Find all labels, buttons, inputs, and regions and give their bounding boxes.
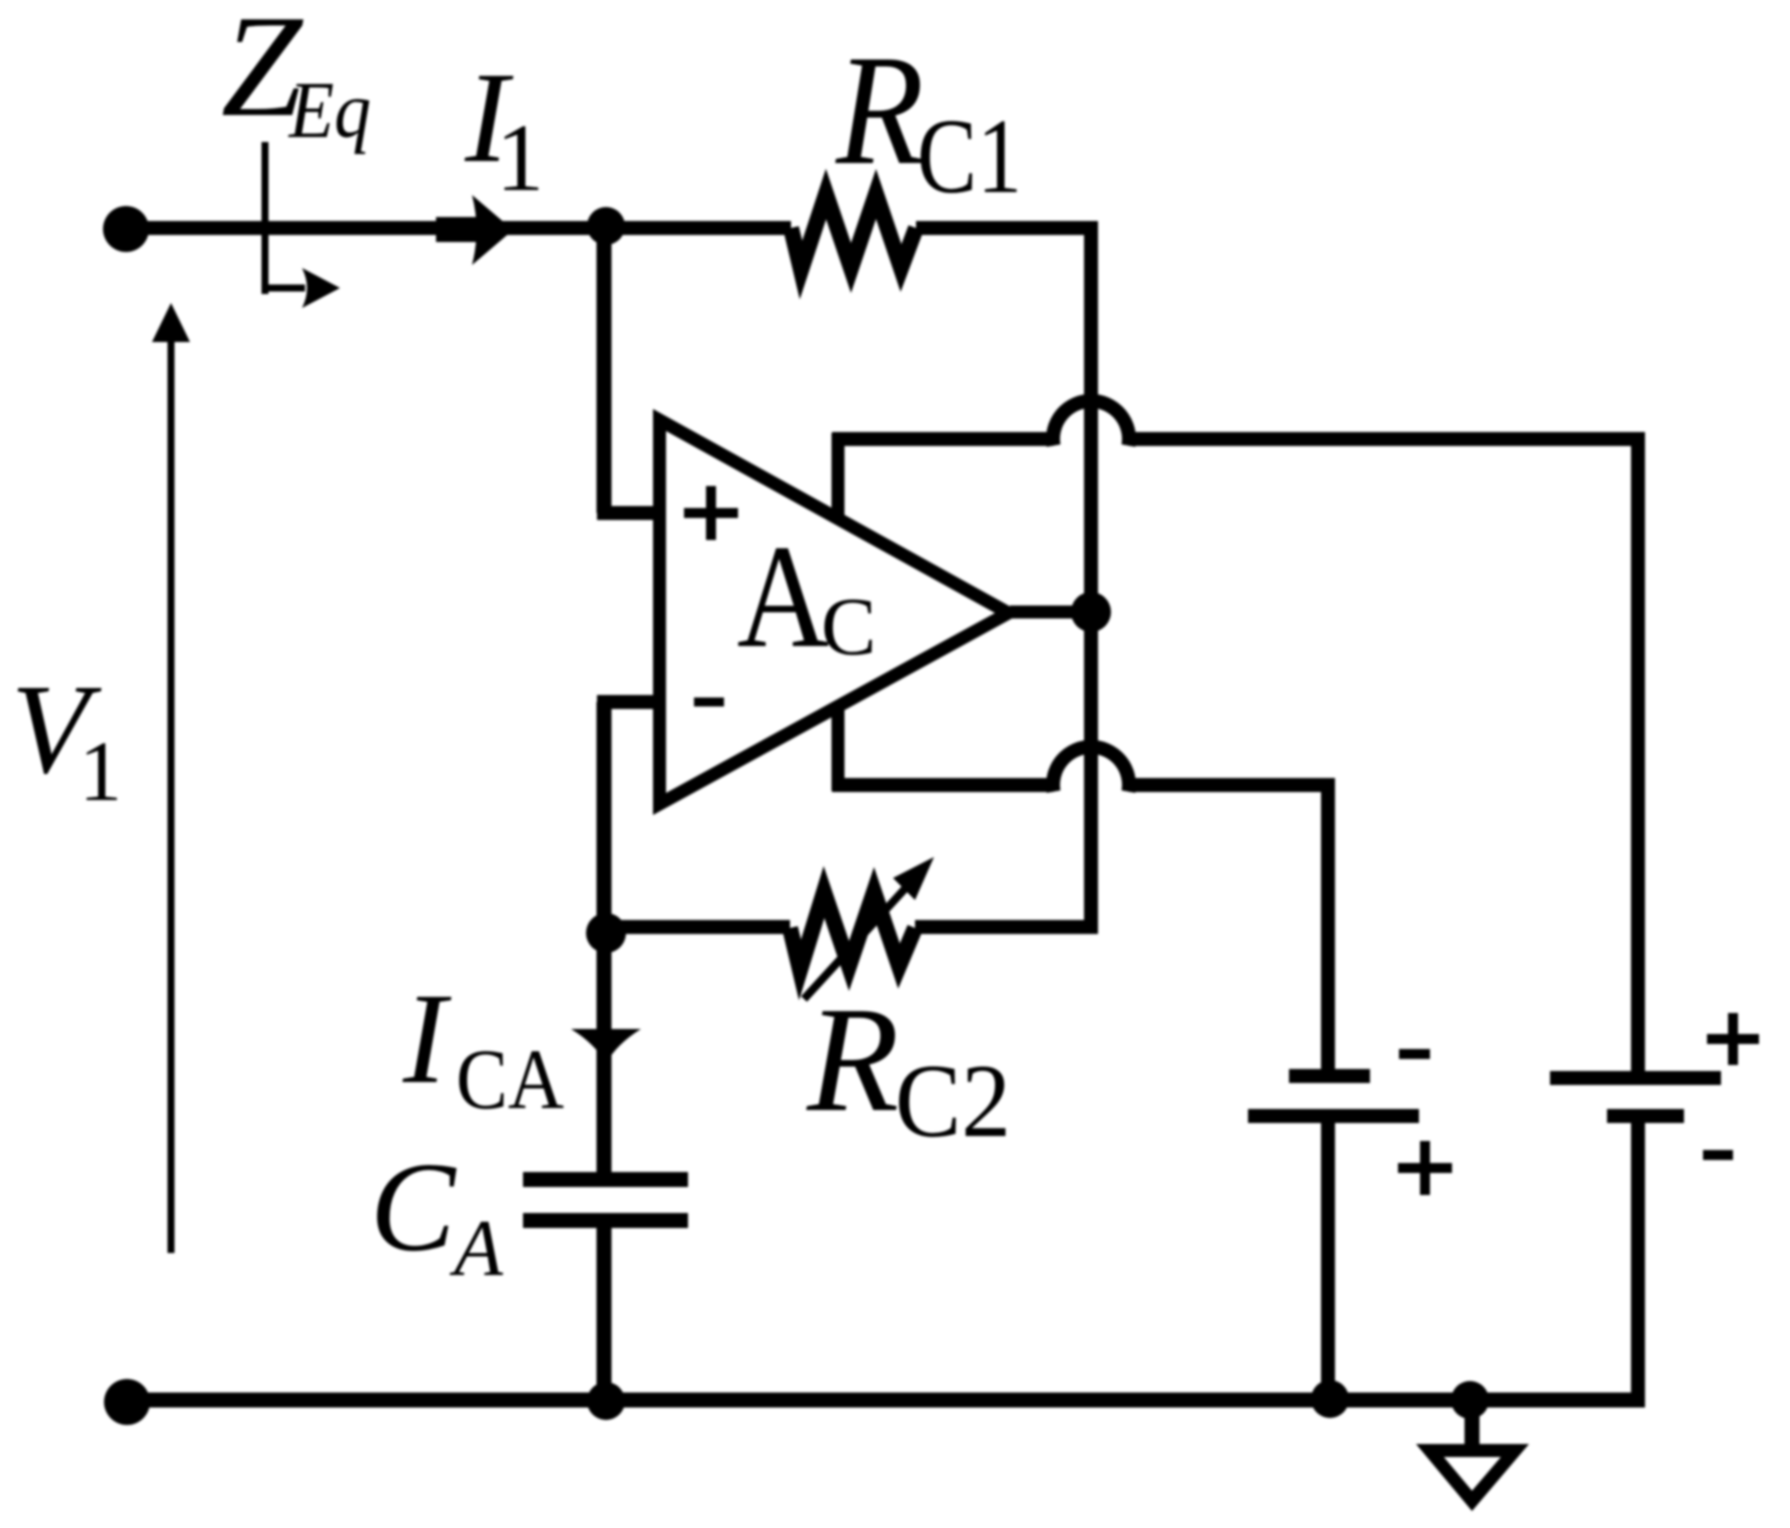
svg-text:C2: C2 <box>895 1042 1011 1159</box>
svg-text:1: 1 <box>79 723 122 819</box>
svg-text:R: R <box>835 23 924 198</box>
svg-text:A: A <box>737 515 829 679</box>
wire RC2 left lead <box>604 920 790 934</box>
capacitor C_A top plate <box>523 1172 688 1187</box>
tick Z_Eq impedance marker <box>262 142 269 294</box>
wire positive supply horizontal to right edge <box>1129 432 1645 446</box>
wire op-amp output <box>1010 606 1091 619</box>
wire RC2 right lead to vertical bus <box>915 920 1098 934</box>
arrowhead V1 <box>152 303 190 342</box>
resistor R_C1 zigzag <box>791 194 916 270</box>
arrowhead of variable resistor RC2 <box>893 857 934 900</box>
svg-text:Eq: Eq <box>288 67 371 155</box>
node left battery bottom junction <box>1311 1380 1349 1418</box>
svg-text:C: C <box>821 580 876 672</box>
svg-text:C: C <box>370 1136 457 1278</box>
battery V- left : long positive plate <box>1248 1109 1419 1123</box>
op-amp minus input symbol <box>694 698 724 707</box>
wire CA node down to capacitor top plate <box>597 933 612 1179</box>
wire right battery top lead <box>1631 439 1645 1073</box>
arrowhead I_CA current arrow <box>571 1029 641 1063</box>
shaft I1 current arrow <box>436 217 496 242</box>
capacitor C_A bottom plate <box>523 1213 688 1228</box>
svg-text:C1: C1 <box>917 98 1022 216</box>
wire right battery bottom lead <box>1631 1120 1645 1404</box>
wire positive supply horizontal left of hump <box>832 432 1053 446</box>
wire hump crossover on positive supply <box>1053 401 1129 446</box>
wire top rail from input to RC1 <box>126 221 791 235</box>
battery V+ right : short negative plate <box>1607 1109 1684 1123</box>
wire hump crossover on negative supply <box>1053 747 1129 792</box>
wire top rail from RC1 to right corner <box>916 221 1098 235</box>
node ground junction <box>1451 1381 1489 1419</box>
wire ground stub <box>1465 1400 1480 1450</box>
battery V+ right : long positive plate <box>1550 1071 1721 1085</box>
wire op-amp plus input horizontal <box>597 506 666 520</box>
wire bottom ground rail <box>126 1393 1645 1408</box>
wire left battery top lead <box>1321 785 1335 1072</box>
wire left vertical to op-amp plus input <box>597 228 612 513</box>
node input terminal top-left <box>103 206 149 252</box>
svg-text:CA: CA <box>456 1031 564 1127</box>
node A top junction <box>587 207 625 245</box>
label minus of right battery <box>1703 1150 1733 1160</box>
wire op-amp minus input horizontal <box>597 695 666 709</box>
node bottom-left terminal <box>104 1379 150 1425</box>
op-amp plus input symbol <box>684 486 738 540</box>
wire positive supply stub from op-amp top edge <box>832 433 845 530</box>
wire negative supply horizontal to left battery <box>1129 778 1335 792</box>
node op-amp output <box>1071 592 1111 632</box>
node RC2 / CA junction <box>586 913 626 953</box>
op-amp AC triangle <box>653 409 1022 815</box>
wire negative supply horizontal left of hump <box>832 778 1053 792</box>
wire right vertical bus <box>1084 228 1098 927</box>
svg-text:R: R <box>806 975 899 1143</box>
ground symbol triangle <box>1416 1444 1529 1511</box>
resistor R_C2 zigzag (variable) <box>790 892 915 970</box>
arrow Z_Eq L-shaped direction arrow <box>265 285 305 292</box>
node CA bottom junction <box>587 1382 625 1420</box>
arrowhead I1 current arrow <box>472 195 513 265</box>
label minus of left battery <box>1399 1049 1430 1059</box>
svg-text:A: A <box>449 1205 504 1293</box>
arrow diagonal of variable resistor RC2 <box>804 881 912 999</box>
battery V- left : short negative plate <box>1289 1069 1370 1083</box>
wire left vertical from minus input to CA node <box>597 702 612 933</box>
svg-text:I: I <box>402 967 452 1111</box>
wire negative supply stub from op-amp bottom edge <box>832 700 845 791</box>
svg-text:1: 1 <box>496 104 544 211</box>
arrowhead Z_Eq direction arrow <box>302 268 340 308</box>
label plus of left battery <box>1398 1141 1452 1195</box>
label plus of right battery <box>1707 1013 1759 1065</box>
wire capacitor bottom plate to ground rail <box>597 1222 612 1404</box>
wire left battery bottom lead <box>1321 1120 1335 1404</box>
arrow V1 voltage reference line <box>168 340 175 1253</box>
